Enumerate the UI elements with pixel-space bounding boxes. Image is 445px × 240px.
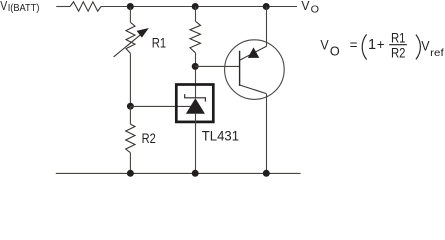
resistor R2 <box>126 124 135 153</box>
svg-text:R1: R1 <box>391 29 406 45</box>
junction bottom-right <box>263 170 270 177</box>
svg-text:1: 1 <box>368 37 376 53</box>
transistor Q1 lower lead <box>240 85 266 94</box>
wire base <box>195 65 239 67</box>
wire R2 top <box>129 106 131 124</box>
svg-text:I(BATT): I(BATT) <box>8 3 40 14</box>
svg-text:V: V <box>421 39 429 54</box>
wire input left <box>56 6 70 8</box>
TL431 anode triangle <box>186 98 205 114</box>
junction top-left <box>127 3 134 10</box>
svg-text:R2: R2 <box>391 44 406 60</box>
svg-text:ref: ref <box>430 48 444 59</box>
wire R1 bottom <box>129 53 131 106</box>
junction top-middle <box>192 3 199 10</box>
wire anode <box>195 114 197 174</box>
junction base node <box>192 63 199 70</box>
wire collector top <box>266 7 268 47</box>
junction node ref (R1/R2) <box>127 103 134 110</box>
node VO label <box>301 0 319 16</box>
wire R2 bottom <box>129 153 131 174</box>
wire top rail <box>101 6 297 8</box>
junction bottom-left <box>127 170 134 177</box>
resistor series input <box>70 2 101 11</box>
svg-text:+: + <box>377 37 385 52</box>
svg-text:O: O <box>330 43 340 58</box>
svg-text:O: O <box>311 5 319 16</box>
svg-text:R2: R2 <box>142 131 156 146</box>
wire R1 top <box>129 7 131 23</box>
transistor Q1 base bar <box>239 51 241 86</box>
resistor bias (middle) <box>190 21 201 53</box>
svg-text:=: = <box>350 37 358 52</box>
wire cathode <box>195 53 197 98</box>
resistor R1 (variable) <box>114 22 149 57</box>
junction bottom-middle <box>192 170 199 177</box>
transistor Q1 upper lead <box>240 46 267 60</box>
svg-text:V: V <box>301 0 310 13</box>
transistor Q1 emitter arrow <box>248 47 259 58</box>
regulator U1 TL431 box <box>176 85 213 122</box>
wire reference to TL431 <box>130 105 190 107</box>
node VI(BATT) label <box>0 0 39 14</box>
equation VO = (1 + R1/R2)Vref <box>320 29 444 60</box>
wire bottom rail <box>56 172 301 174</box>
svg-text:TL431: TL431 <box>202 129 239 144</box>
svg-text:R1: R1 <box>152 35 166 50</box>
TL431 cathode bar <box>185 94 206 101</box>
transistor Q1 circle <box>225 40 285 100</box>
wire middle resistor top <box>195 7 197 22</box>
junction top-right <box>263 3 270 10</box>
svg-text:V: V <box>0 0 7 13</box>
wire emitter bottom <box>266 94 268 174</box>
svg-text:V: V <box>320 37 328 52</box>
